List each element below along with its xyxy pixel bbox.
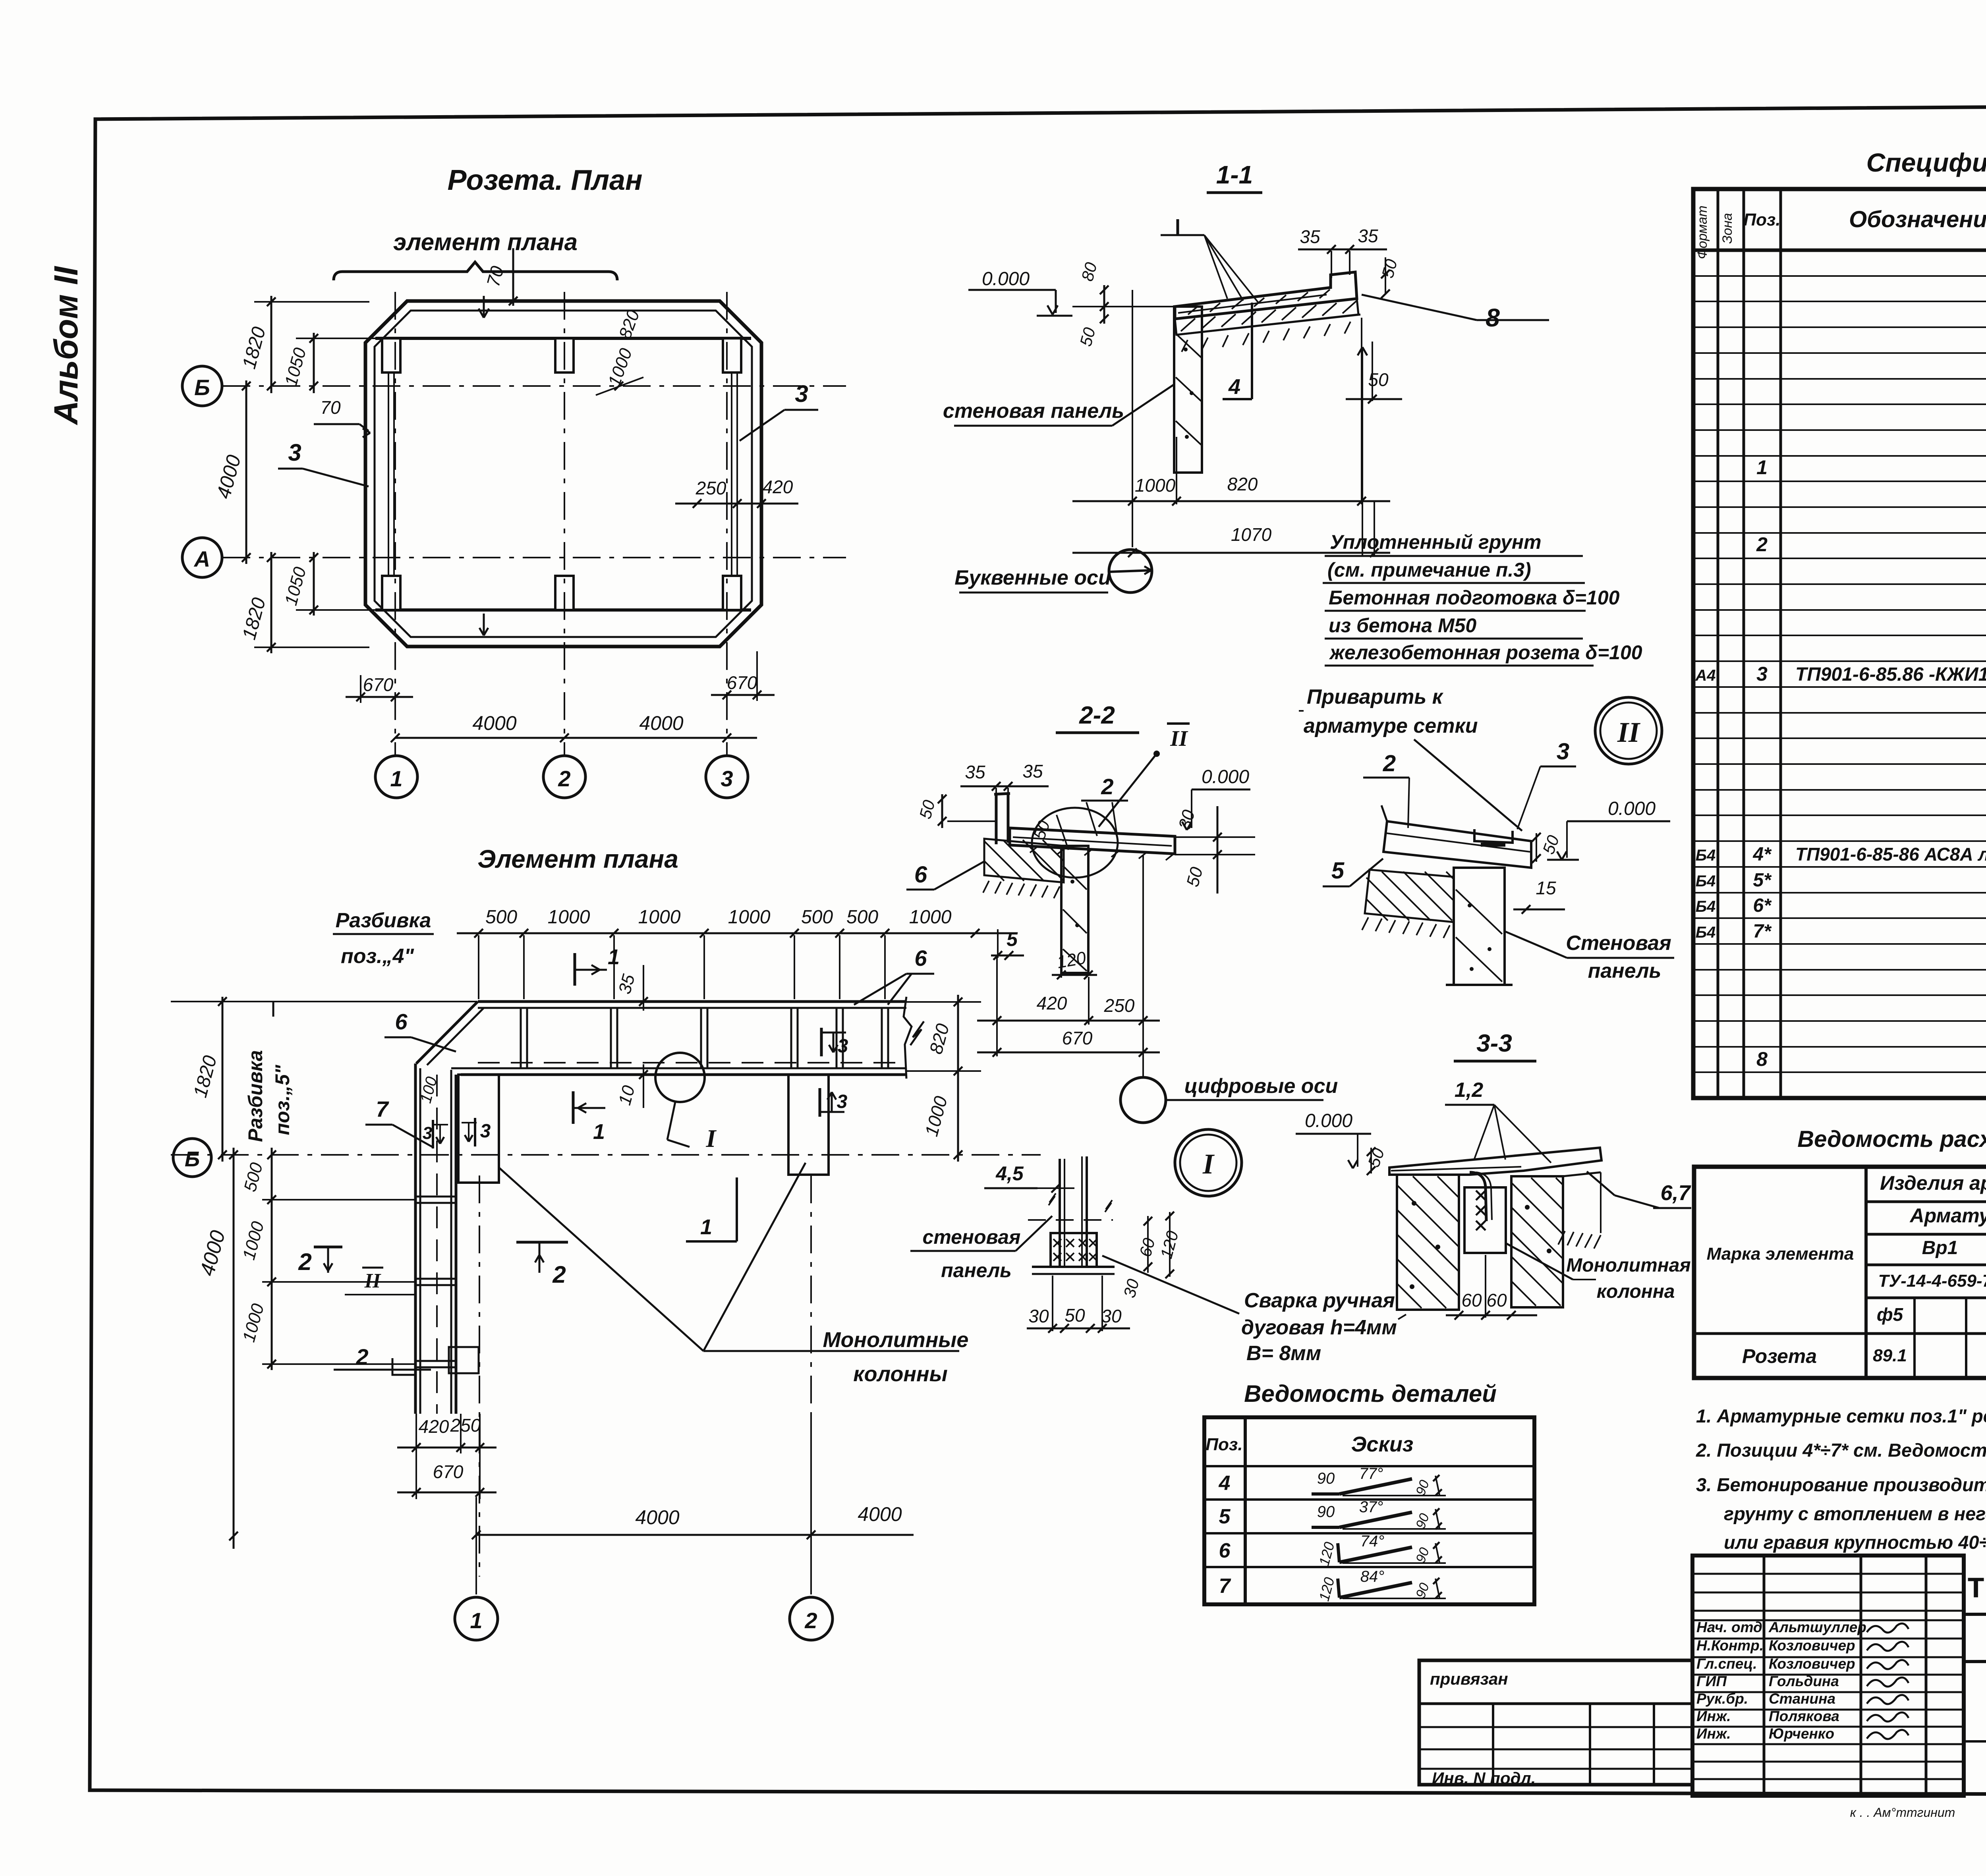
- svg-text:Нач. отд.: Нач. отд.: [1696, 1619, 1766, 1635]
- small rect lower band: [449, 1347, 479, 1373]
- svg-text:Бетонная подготовка δ=100: Бетонная подготовка δ=100: [1329, 587, 1620, 609]
- svg-text:4: 4: [1219, 1472, 1231, 1495]
- svg-text:3: 3: [795, 380, 808, 407]
- svg-text:Поз.: Поз.: [1743, 210, 1780, 230]
- axis circle 2: [543, 756, 585, 798]
- octagon inner wall line: [375, 311, 752, 637]
- axis 2 element vertical: [810, 1175, 812, 1577]
- dim 1000 820: [1072, 500, 1390, 502]
- vertical band chords: [414, 1063, 417, 1414]
- svg-text:250: 250: [450, 1415, 481, 1436]
- svg-text:30: 30: [1101, 1306, 1122, 1326]
- inner bottom face: [375, 608, 751, 612]
- svg-text:ТП901- Б - 8 5.8 Б: ТП901- Б - 8 5.8 Б: [1967, 1573, 1986, 1606]
- svg-text:5: 5: [1331, 858, 1345, 884]
- svg-text:Рук.бр.: Рук.бр.: [1696, 1691, 1748, 1707]
- svg-text:1: 1: [700, 1215, 712, 1239]
- svg-text:2: 2: [1756, 533, 1768, 556]
- svg-text:5: 5: [1007, 928, 1018, 950]
- svg-text:Н.Контр.: Н.Контр.: [1696, 1637, 1764, 1654]
- svg-text:2: 2: [552, 1261, 566, 1288]
- section mark 1 bottom: [572, 1091, 575, 1124]
- svg-text:Станина: Станина: [1769, 1691, 1835, 1707]
- column bottom-right: [723, 576, 741, 610]
- svg-text:500: 500: [485, 907, 517, 928]
- svg-text:7: 7: [1219, 1575, 1231, 1598]
- slab II: [1383, 821, 1531, 868]
- svg-text:Сварка ручная: Сварка ручная: [1244, 1289, 1395, 1312]
- svg-text:Розета: Розета: [1742, 1345, 1817, 1367]
- svg-text:6*: 6*: [1753, 895, 1772, 916]
- svg-text:5: 5: [1219, 1505, 1231, 1528]
- svg-text:6: 6: [914, 946, 927, 971]
- leader arrow to ground: [1362, 349, 1363, 555]
- band right break: [904, 997, 912, 1079]
- monolithic column right: [788, 1075, 829, 1175]
- svg-text:1. Арматурные сетки поз.1": 1. Арматурные сетки поз.1" резать ширино…: [1696, 1405, 1986, 1426]
- right concrete block: [1511, 1176, 1563, 1307]
- axis 1 element vertical: [479, 1175, 480, 1577]
- slab mesh line: [1178, 295, 1327, 313]
- node I callout circle on band: [655, 1053, 705, 1102]
- svg-text:35: 35: [1300, 226, 1320, 247]
- column bottom-mid: [555, 576, 574, 610]
- signature table: [1692, 1556, 1964, 1796]
- column top-right: [723, 338, 741, 372]
- svg-text:колонна: колонна: [1597, 1281, 1675, 1302]
- svg-text:15: 15: [1536, 878, 1556, 898]
- svg-text:250: 250: [695, 478, 726, 498]
- svg-text:Монолитные: Монолитные: [823, 1328, 969, 1352]
- svg-text:5*: 5*: [1753, 870, 1772, 891]
- axis 3 vertical: [726, 292, 728, 755]
- svg-text:Обозначение: Обозначение: [1849, 207, 1986, 232]
- svg-text:А: А: [193, 546, 210, 571]
- svg-text:6: 6: [395, 1009, 408, 1034]
- svg-text:3: 3: [480, 1121, 491, 1142]
- node circle I big: [1175, 1129, 1242, 1196]
- slab 2-2: [1010, 828, 1175, 854]
- svg-text:2: 2: [355, 1344, 368, 1369]
- svg-text:В= 8мм: В= 8мм: [1246, 1342, 1321, 1365]
- axis circle Б: [182, 366, 222, 406]
- column top-mid: [555, 338, 574, 372]
- axis circle 1 element: [455, 1597, 498, 1640]
- svg-text:7*: 7*: [1753, 921, 1772, 942]
- column top-left: [382, 338, 400, 372]
- svg-text:3: 3: [1756, 663, 1768, 685]
- svg-text:Эскиз: Эскиз: [1351, 1432, 1414, 1456]
- svg-text:420: 420: [763, 477, 793, 497]
- svg-text:II: II: [1170, 726, 1188, 751]
- svg-text:панель: панель: [1588, 959, 1661, 982]
- svg-text:2: 2: [298, 1249, 311, 1275]
- svg-text:3: 3: [838, 1036, 848, 1057]
- svg-text:1: 1: [470, 1608, 482, 1633]
- svg-text:цифровые оси: цифровые оси: [1184, 1075, 1338, 1098]
- svg-text:ТП901-6-85.86 -КЖИ1,9,01: ТП901-6-85.86 -КЖИ1,9,01: [1795, 664, 1986, 685]
- svg-text:Козловичер: Козловичер: [1769, 1637, 1855, 1654]
- svg-text:30: 30: [1028, 1306, 1049, 1326]
- svg-text:2: 2: [558, 766, 570, 791]
- section mark 3 upper: [820, 1028, 823, 1056]
- svg-text:90: 90: [1317, 1470, 1335, 1487]
- svg-text:60: 60: [1461, 1290, 1482, 1310]
- svg-text:I: I: [1202, 1148, 1215, 1180]
- axis Б horizontal: [222, 385, 846, 387]
- svg-text:4,5: 4,5: [995, 1162, 1024, 1185]
- ground hachure right: [1558, 1231, 1565, 1245]
- svg-text:0.000: 0.000: [1608, 798, 1656, 819]
- slab 3-3: [1389, 1148, 1602, 1175]
- wall panel hatched: [1174, 307, 1202, 473]
- привязан box: [1419, 1660, 1692, 1785]
- svg-text:Козловичер: Козловичер: [1769, 1656, 1855, 1672]
- svg-text:Инв. N подл.: Инв. N подл.: [1432, 1769, 1536, 1787]
- corner diagonals: [416, 1002, 478, 1063]
- wall lines node I: [1059, 1159, 1061, 1268]
- band bottom chord: [461, 1067, 906, 1069]
- dim 1820 top-left: [270, 296, 272, 393]
- axis 1 vertical: [394, 292, 396, 755]
- svg-text:35: 35: [965, 762, 985, 782]
- svg-text:2: 2: [804, 1608, 817, 1633]
- spec table outer: [1693, 189, 1986, 1098]
- column core dashed: [1458, 1175, 1460, 1310]
- svg-text:или гравия крупностью 40÷: или гравия крупностью 40÷60мм .: [1724, 1532, 1986, 1553]
- section mark T2 right: [516, 1241, 568, 1244]
- svg-text:Разбивка: Разбивка: [244, 1050, 267, 1142]
- svg-text:7: 7: [376, 1096, 389, 1121]
- vertical band dashed: [436, 1075, 438, 1414]
- section mark 3 lower: [819, 1088, 821, 1117]
- svg-text:2-2: 2-2: [1079, 702, 1115, 729]
- svg-text:420: 420: [1037, 993, 1067, 1013]
- details table grid: [1204, 1417, 1534, 1604]
- svg-text:6,7: 6,7: [1660, 1181, 1691, 1205]
- svg-text:Монолитная: Монолитная: [1566, 1255, 1690, 1276]
- svg-text:0.000: 0.000: [1305, 1110, 1352, 1131]
- svg-text:Альбом II: Альбом II: [47, 266, 85, 425]
- band dashed line: [478, 1062, 906, 1063]
- node circle II big: [1595, 697, 1662, 764]
- svg-text:Формат: Формат: [1695, 205, 1710, 259]
- svg-text:50: 50: [1064, 1305, 1085, 1326]
- dim 4000 4000 element bottom: [476, 1534, 914, 1536]
- axis circle Б element: [173, 1139, 211, 1177]
- svg-text:Зона: Зона: [1720, 213, 1735, 243]
- svg-text:500: 500: [801, 907, 833, 928]
- top dim chain: [457, 932, 1017, 934]
- svg-text:3. Бетонирование производи: 3. Бетонирование производить по уплотнен…: [1696, 1474, 1986, 1495]
- weld x-marks: [1476, 1191, 1486, 1200]
- svg-text:Юрченко: Юрченко: [1769, 1725, 1834, 1742]
- svg-text:1000: 1000: [909, 907, 952, 928]
- svg-text:колонны: колонны: [853, 1362, 948, 1386]
- wall panel II: [1454, 868, 1505, 985]
- right mesh double line: [731, 342, 732, 607]
- svg-text:1000: 1000: [548, 907, 590, 928]
- axis line to circle: [1142, 855, 1144, 1077]
- svg-text:Инж.: Инж.: [1696, 1725, 1731, 1742]
- svg-text:670: 670: [433, 1461, 464, 1482]
- axis circle цифровые оси: [1121, 1077, 1166, 1123]
- svg-text:панель: панель: [941, 1259, 1012, 1282]
- hatched anchor block: [1051, 1233, 1097, 1267]
- axis circle 3: [706, 756, 748, 798]
- axis circle 1: [375, 756, 417, 798]
- axis line down to circle: [1132, 290, 1133, 547]
- svg-text:железобетонная розета δ=100: железобетонная розета δ=100: [1329, 641, 1642, 664]
- svg-text:35: 35: [1358, 226, 1378, 246]
- svg-text:1000: 1000: [638, 907, 681, 928]
- svg-text:3-3: 3-3: [1476, 1030, 1512, 1057]
- svg-text:0.000: 0.000: [982, 268, 1030, 290]
- svg-text:84°: 84°: [1360, 1568, 1385, 1585]
- break marks: [1049, 1193, 1056, 1205]
- axis circle 2 element: [790, 1597, 833, 1640]
- svg-text:I: I: [706, 1124, 717, 1152]
- band break mark 4: [910, 1021, 924, 1045]
- dim 4000 4000 bottom: [395, 737, 757, 739]
- bent bar: [1470, 1172, 1486, 1221]
- svg-text:II: II: [364, 1270, 381, 1292]
- dim 1070: [1072, 552, 1390, 554]
- svg-text:250: 250: [1104, 995, 1135, 1016]
- svg-text:арматуре сетки: арматуре сетки: [1304, 714, 1478, 737]
- svg-text:6: 6: [914, 862, 927, 888]
- section mark 1 top: [574, 953, 576, 986]
- svg-text:Полякова: Полякова: [1769, 1708, 1839, 1724]
- svg-text:1: 1: [608, 945, 620, 969]
- steel table outer: [1694, 1167, 1986, 1378]
- svg-text:ТУ-14-4-659-75: ТУ-14-4-659-75: [1878, 1271, 1986, 1291]
- bottom wall arrow: [483, 614, 485, 635]
- spec row lines: [1693, 275, 1986, 277]
- svg-text:Гл.спец.: Гл.спец.: [1696, 1656, 1757, 1672]
- svg-text:1: 1: [593, 1120, 605, 1144]
- dim 670 bottom-right: [711, 694, 775, 696]
- svg-text:1-1: 1-1: [1216, 160, 1253, 189]
- title block main: [1962, 1556, 1966, 1796]
- dim 670 bottom-left: [346, 696, 413, 698]
- svg-text:Элемент плана: Элемент плана: [477, 845, 678, 873]
- svg-text:670: 670: [1062, 1028, 1093, 1048]
- svg-text:2: 2: [1383, 751, 1396, 776]
- svg-text:1070: 1070: [1231, 524, 1272, 545]
- svg-text:8: 8: [1756, 1048, 1768, 1070]
- svg-text:ГИП: ГИП: [1696, 1673, 1727, 1689]
- svg-text:4000: 4000: [635, 1506, 679, 1529]
- svg-text:89.1: 89.1: [1873, 1346, 1907, 1365]
- embedded channel: [1474, 829, 1513, 843]
- svg-text:2: 2: [1101, 774, 1113, 799]
- svg-text:4*: 4*: [1752, 844, 1772, 865]
- cut mark above slab: [1177, 219, 1179, 235]
- svg-text:Арматура класса: Арматура класса: [1909, 1204, 1986, 1227]
- svg-text:дуговая h=4мм: дуговая h=4мм: [1241, 1316, 1397, 1339]
- svg-text:3: 3: [423, 1123, 432, 1143]
- band ties: [520, 1008, 522, 1068]
- svg-text:1: 1: [1756, 456, 1768, 479]
- svg-text:820: 820: [1227, 474, 1258, 494]
- concrete prep under slab: [1175, 299, 1358, 335]
- dim 4000 element: [233, 1148, 235, 1549]
- inner top face: [375, 337, 751, 340]
- svg-text:1: 1: [390, 766, 402, 791]
- node circle II: [1032, 808, 1118, 878]
- svg-text:Приварить к: Приварить к: [1307, 685, 1444, 708]
- section mark 1 bracket lower: [736, 1177, 738, 1241]
- svg-text:Инж.: Инж.: [1696, 1708, 1731, 1724]
- embedded item rect: [1464, 1187, 1506, 1253]
- slab profile: [1175, 272, 1357, 319]
- svg-text:ТП901-6-85-86 АС8А л.II: ТП901-6-85-86 АС8А л.II: [1795, 844, 1986, 865]
- svg-text:стеновая: стеновая: [923, 1226, 1021, 1248]
- base lines: [1032, 1266, 1115, 1268]
- svg-text:элемент плана: элемент плана: [393, 229, 578, 255]
- svg-text:90: 90: [1317, 1503, 1335, 1521]
- svg-text:Б4: Б4: [1696, 847, 1716, 864]
- axis Б element plan: [171, 1154, 1041, 1156]
- svg-text:3: 3: [1557, 739, 1569, 764]
- svg-text:4000: 4000: [858, 1503, 902, 1525]
- svg-text:А4: А4: [1695, 667, 1716, 684]
- extension lines ties: [262, 1199, 415, 1200]
- section marks 3 on left band: [432, 1120, 434, 1148]
- svg-text:Ведомость расхода стали на: Ведомость расхода стали на элемент, кг: [1797, 1126, 1986, 1152]
- steel verticals: [1864, 1167, 1868, 1378]
- svg-text:0.000: 0.000: [1202, 766, 1249, 787]
- svg-text:грунту с втоплением в него: грунту с втоплением в него на глубину не…: [1724, 1503, 1986, 1524]
- bracket under subtitle: [334, 262, 617, 280]
- svg-text:77°: 77°: [1359, 1465, 1383, 1482]
- svg-text:Уплотненный грунт: Уплотненный грунт: [1330, 531, 1542, 553]
- svg-text:Марка элемента: Марка элемента: [1707, 1244, 1854, 1264]
- svg-text:Розета. План: Розета. План: [447, 164, 642, 196]
- left concrete block: [1397, 1175, 1459, 1310]
- concrete prep II: [1365, 870, 1454, 922]
- svg-text:3: 3: [288, 439, 301, 466]
- svg-text:поз.„4": поз.„4": [341, 945, 414, 968]
- svg-text:Гольдина: Гольдина: [1769, 1673, 1839, 1689]
- svg-text:Вр1: Вр1: [1922, 1237, 1958, 1258]
- ground line: [1177, 315, 1360, 335]
- svg-text:670: 670: [727, 672, 757, 693]
- monolithic column left: [458, 1075, 499, 1183]
- svg-text:Б4: Б4: [1696, 898, 1716, 915]
- svg-text:стеновая панель: стеновая панель: [943, 400, 1124, 423]
- dashed mid line: [1028, 1219, 1113, 1221]
- svg-text:35: 35: [1022, 761, 1043, 782]
- svg-text:670: 670: [363, 674, 394, 695]
- small notch left band: [392, 1358, 415, 1375]
- svg-text:70: 70: [320, 397, 341, 418]
- svg-text:Б: Б: [194, 375, 210, 400]
- svg-text:Разбивка: Разбивка: [336, 909, 431, 932]
- svg-text:Буквенные оси: Буквенные оси: [954, 566, 1111, 589]
- svg-text:1,2: 1,2: [1455, 1079, 1483, 1102]
- dim 1820 element: [222, 997, 224, 1162]
- svg-text:к . . Ам°ттгинит: к . . Ам°ттгинит: [1850, 1805, 1955, 1820]
- svg-text:1000: 1000: [728, 907, 771, 928]
- svg-text:Альтшуллер: Альтшуллер: [1768, 1619, 1866, 1635]
- svg-text:привязан: привязан: [1430, 1669, 1508, 1688]
- concrete prep 2-2: [984, 839, 1064, 882]
- left mesh double line: [388, 342, 389, 607]
- vertical band ties: [415, 1196, 456, 1198]
- svg-text:(см. примечание п.3): (см. примечание п.3): [1327, 559, 1531, 581]
- svg-text:поз.„5": поз.„5": [271, 1064, 294, 1135]
- svg-text:8: 8: [1486, 303, 1500, 332]
- svg-text:1000: 1000: [1135, 475, 1176, 496]
- svg-text:50: 50: [1368, 369, 1389, 390]
- svg-text:3: 3: [837, 1091, 848, 1112]
- svg-text:из бетона М50: из бетона М50: [1329, 614, 1476, 637]
- svg-text:4: 4: [1228, 375, 1240, 399]
- axis А horizontal: [222, 557, 846, 558]
- svg-text:Б4: Б4: [1696, 872, 1716, 890]
- svg-text:Спецификация розеты: Спецификация розеты: [1866, 148, 1986, 177]
- dim 1050 top-left: [313, 333, 315, 393]
- curb left: [995, 794, 998, 844]
- svg-text:6: 6: [1219, 1539, 1231, 1562]
- svg-text:60: 60: [1486, 1290, 1507, 1310]
- svg-text:Б: Б: [185, 1147, 200, 1171]
- steel horizontals: [1866, 1200, 1986, 1203]
- svg-text:74°: 74°: [1360, 1532, 1385, 1550]
- svg-text:500: 500: [846, 907, 878, 928]
- band top chord: [478, 1000, 906, 1003]
- axis circle buk: [1109, 550, 1152, 593]
- svg-text:4000: 4000: [639, 712, 683, 734]
- wall panel 2-2: [1061, 846, 1088, 973]
- svg-text:2. Позиции 4*÷7* см. Ведомост: 2. Позиции 4*÷7* см. Ведомость деталей.: [1696, 1440, 1986, 1461]
- svg-text:37°: 37°: [1359, 1498, 1383, 1516]
- svg-text:4000: 4000: [472, 712, 516, 734]
- dim 1050 bottom-left: [313, 552, 315, 616]
- svg-text:Изделия арматурные: Изделия арматурные: [1880, 1172, 1986, 1194]
- right dim chain 820/1000: [957, 995, 959, 1162]
- svg-text:420: 420: [419, 1416, 449, 1437]
- dim 4000 left: [245, 380, 247, 564]
- dim 80 50 left chain: [1103, 285, 1105, 324]
- column bottom-left: [382, 576, 400, 610]
- octagon outer wall: [365, 301, 761, 647]
- svg-text:Поз.: Поз.: [1206, 1435, 1242, 1454]
- svg-text:Стеновая: Стеновая: [1566, 932, 1671, 955]
- svg-text:Ведомость деталей: Ведомость деталей: [1244, 1380, 1497, 1407]
- axis circle А: [182, 538, 222, 577]
- svg-text:3: 3: [721, 766, 733, 791]
- svg-text:II: II: [1617, 716, 1641, 748]
- svg-text:Б4: Б4: [1696, 924, 1716, 941]
- left dim chain 500/1000/1000: [271, 1148, 273, 1370]
- svg-text:ф5: ф5: [1877, 1304, 1904, 1325]
- dim 1820 bottom-left: [270, 552, 272, 653]
- axis 2 vertical: [564, 292, 565, 755]
